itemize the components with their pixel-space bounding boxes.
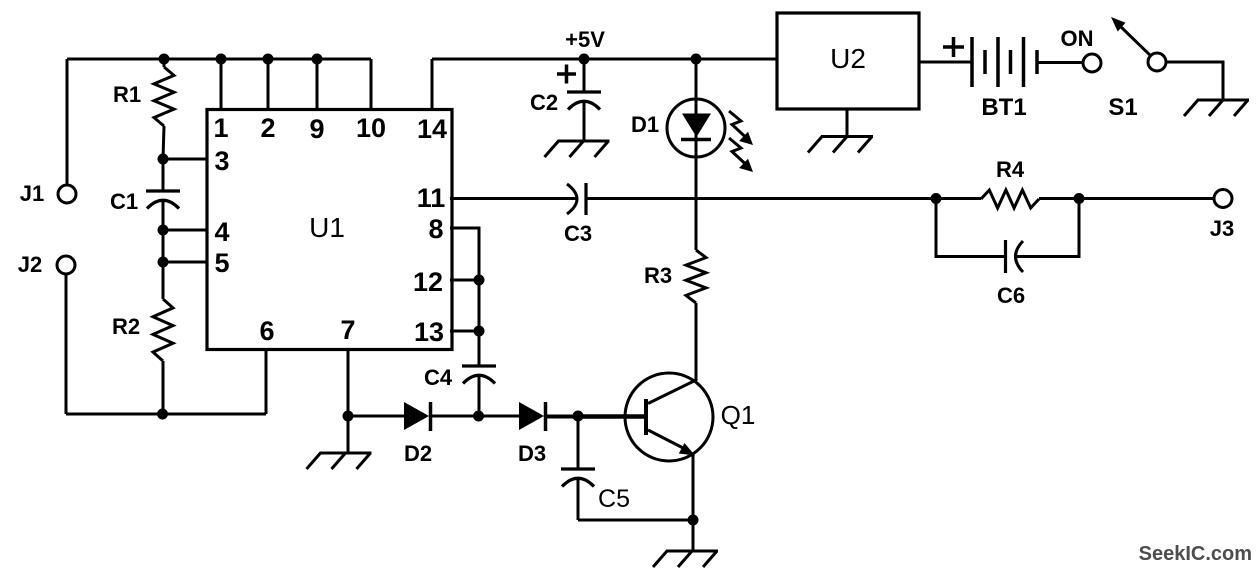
svg-text:ON: ON (1061, 26, 1094, 51)
svg-text:7: 7 (340, 315, 355, 345)
wire pin 1 (220, 59, 223, 110)
ground (right of S1) (1184, 100, 1249, 116)
junction rail-pin2 (263, 54, 274, 65)
ground (under pin 7) (307, 453, 372, 469)
wire R4 left lead (936, 197, 981, 200)
wire D3 to base node (545, 415, 578, 419)
wire D2-D3 (430, 415, 519, 418)
resistor R3 (686, 250, 706, 381)
svg-text:C1: C1 (110, 189, 138, 214)
wire pin 9 (316, 59, 319, 110)
IC U2 (777, 13, 919, 109)
svg-text:5: 5 (214, 248, 229, 278)
svg-text:R3: R3 (644, 263, 672, 288)
junction base node (573, 411, 584, 422)
wire emitter to ground (692, 520, 695, 551)
svg-text:1: 1 (213, 113, 228, 143)
battery BT1 (972, 37, 1037, 87)
wire pin 7 (347, 349, 350, 453)
IC U1 (207, 110, 452, 350)
svg-text:BT1: BT1 (981, 94, 1026, 121)
wire pin 12 out (450, 279, 479, 282)
junction pin4 node (158, 225, 169, 236)
junction rail-C2 (579, 54, 590, 65)
wire pin 6 (265, 349, 268, 414)
plus sign C2 (557, 65, 576, 84)
wire bottom-left (66, 413, 266, 416)
svg-text:R2: R2 (112, 314, 140, 339)
junction pin5 node (158, 257, 169, 268)
junction rail-pin1 (216, 54, 227, 65)
svg-text:14: 14 (417, 114, 447, 144)
junction rail-R1 (159, 54, 170, 65)
junction rail-pin9 (312, 54, 323, 65)
capacitor C6 (1006, 240, 1024, 273)
wire U2 ground lead (846, 109, 849, 137)
resistor R4 (981, 190, 1039, 208)
svg-text:D1: D1 (631, 112, 659, 137)
capacitor C3 (567, 183, 586, 215)
svg-text:+5V: +5V (565, 27, 605, 52)
ground (under Q1 emitter) (653, 551, 718, 567)
svg-text:U2: U2 (830, 43, 866, 74)
svg-text:J2: J2 (18, 252, 42, 277)
wire S1 to ground (1166, 62, 1223, 100)
junction R4 right node (1074, 193, 1085, 204)
wire pin7 node to D2 (348, 415, 404, 418)
wire J2 lead (65, 274, 68, 414)
wire pin 11 out (450, 197, 577, 200)
transistor Q1 (625, 373, 713, 520)
wire battery to ON terminal (1037, 61, 1083, 64)
svg-text:D3: D3 (518, 441, 546, 466)
ground (under C2) (545, 141, 610, 157)
junction R4 left node (931, 193, 942, 204)
svg-text:R4: R4 (996, 157, 1025, 182)
wire C6 left branch (936, 199, 1005, 257)
wire C6 right branch (1016, 199, 1080, 257)
wire U2 to battery (919, 61, 972, 64)
svg-text:D2: D2 (404, 441, 432, 466)
wire pin 13 out (450, 330, 479, 333)
ground (under U2) (808, 137, 873, 153)
wire top-left +V rail (67, 58, 371, 61)
svg-text:13: 13 (414, 317, 444, 347)
svg-text:8: 8 (428, 214, 443, 244)
wire pin 2 (267, 59, 270, 110)
junction rail-D1 (691, 54, 702, 65)
capacitor C1 (146, 159, 180, 230)
wire pin 14 (431, 59, 434, 110)
terminal J2 (57, 256, 75, 274)
svg-text:12: 12 (413, 267, 443, 297)
svg-text:9: 9 (309, 114, 324, 144)
switch S1 (1111, 17, 1166, 71)
junction pin3 node (158, 154, 169, 165)
svg-text:C4: C4 (424, 365, 453, 390)
capacitor C4 (462, 366, 496, 416)
resistor R1 (154, 59, 174, 159)
wire C5 to emitter (578, 519, 693, 522)
junction pin7 node (343, 411, 354, 422)
wire pin 4 (163, 229, 207, 232)
plus sign battery (943, 37, 964, 57)
wire J1 lead (66, 59, 69, 185)
junction R2 bottom (157, 409, 168, 420)
wire +5V rail right (432, 58, 777, 61)
terminal ON (1083, 54, 1101, 72)
wire R4 right to J3 (1039, 197, 1214, 200)
svg-text:4: 4 (214, 217, 229, 247)
svg-text:C5: C5 (598, 485, 630, 513)
svg-text:6: 6 (259, 316, 274, 346)
terminal J3 (1214, 190, 1232, 208)
svg-text:10: 10 (356, 113, 386, 143)
wire C3 to R4 (586, 197, 936, 200)
svg-text:11: 11 (417, 183, 446, 213)
LED D1 (667, 59, 725, 250)
svg-text:SeekIC.com: SeekIC.com (1139, 543, 1252, 565)
junction C4 node (473, 411, 484, 422)
wire base lead (thick) (578, 414, 645, 419)
svg-text:R1: R1 (113, 82, 141, 107)
svg-text:U1: U1 (309, 212, 345, 243)
diode D2 (404, 402, 431, 431)
diode D3 (519, 402, 546, 431)
svg-text:J1: J1 (20, 181, 44, 206)
LED light arrow 2 (729, 138, 753, 172)
svg-text:2: 2 (260, 113, 275, 143)
junction emitter node (688, 515, 699, 526)
capacitor C5 (561, 416, 595, 520)
wire pin 8 out (450, 228, 479, 366)
svg-text:S1: S1 (1108, 94, 1137, 121)
svg-text:Q1: Q1 (721, 400, 756, 430)
junction pin12 node (474, 275, 485, 286)
wire C1-R2 node link (162, 230, 165, 299)
wire pin 10 (370, 59, 373, 110)
LED light arrow 1 (729, 111, 753, 145)
resistor R2 (153, 299, 173, 414)
svg-text:3: 3 (214, 146, 229, 176)
wire pin 3 (163, 158, 207, 161)
svg-text:C2: C2 (530, 90, 558, 115)
svg-text:J3: J3 (1210, 216, 1234, 241)
capacitor C2 (567, 59, 601, 141)
wire pin 5 (163, 261, 207, 264)
svg-text:C3: C3 (564, 221, 592, 246)
svg-text:C6: C6 (997, 283, 1025, 308)
terminal J1 (58, 185, 76, 203)
junction pin13 node (474, 326, 485, 337)
